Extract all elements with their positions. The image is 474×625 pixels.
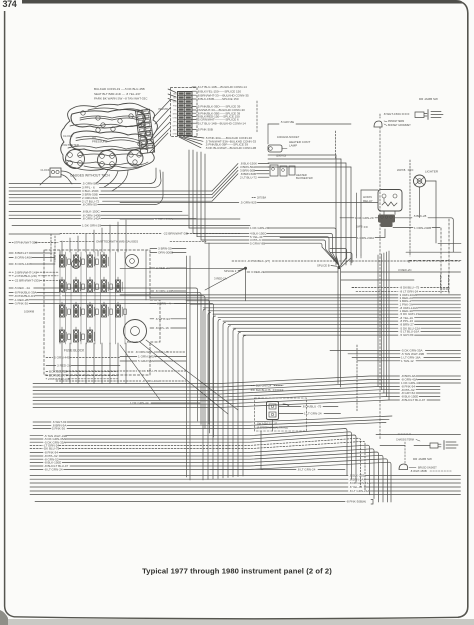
fuse r2c5 bbox=[115, 280, 120, 292]
wire DK BLU-75 lower bundle bbox=[30, 448, 43, 450]
svg-text:SPLICE 2: SPLICE 2 bbox=[224, 269, 237, 273]
svg-text:PRESSURE: PRESSURE bbox=[92, 139, 108, 143]
svg-text:OMITTED WITH W/B GAUGES: OMITTED WITH W/B GAUGES bbox=[96, 240, 138, 244]
C2 lower diagonal leads bbox=[186, 136, 204, 138]
instrument cluster GAUGES WITHOUT TACH outline bbox=[61, 103, 158, 171]
svg-text:BLK BLU-75: BLK BLU-75 bbox=[256, 388, 271, 392]
wire label fan C2 row 5 bbox=[192, 106, 196, 108]
svg-text:-8 LT GRN-24: -8 LT GRN-24 bbox=[44, 468, 63, 472]
svg-text:.8 ORN-140A: .8 ORN-140A bbox=[82, 217, 102, 221]
wire left label -3 PNK-30 bbox=[9, 303, 13, 305]
svg-text:LIGHTER: LIGHTER bbox=[425, 170, 439, 174]
svg-text:2 LT BLU-72: 2 LT BLU-72 bbox=[240, 175, 257, 179]
lighter right wire bbox=[426, 180, 437, 182]
svg-text:GRN: GRN bbox=[173, 134, 178, 136]
fuse r3c5 bbox=[115, 305, 120, 317]
wire ORN-300B bbox=[150, 252, 157, 254]
svg-text:BULKHD CONN-19 ----5 DK BLU-45: BULKHD CONN-19 ----5 DK BLU-45B bbox=[94, 87, 145, 91]
fuse block circle A bbox=[126, 255, 139, 268]
bus B wire 1 DK GRN-44 bbox=[33, 383, 400, 391]
wire left bundle row 2 3 PPL - 6 bbox=[9, 186, 81, 188]
svg-text:1 TAN-12: 1 TAN-12 bbox=[401, 359, 414, 363]
svg-text:1 ORN-240B: 1 ORN-240B bbox=[414, 226, 431, 230]
svg-text:.6 WHT-93: .6 WHT-93 bbox=[155, 317, 170, 321]
wire -5 DK GRN-35A lower bundle bbox=[30, 438, 43, 440]
bus B wire -8 ORN-40A bbox=[33, 380, 400, 388]
svg-text:.5 BLK-28: .5 BLK-28 bbox=[413, 214, 427, 218]
svg-text:.8 BRN-27: .8 BRN-27 bbox=[14, 251, 28, 255]
svg-text:-3 PNK-30: -3 PNK-30 bbox=[14, 302, 28, 306]
jamb plug glyph 1 bbox=[430, 443, 441, 448]
connector C1 cluster edge ladder bbox=[135, 109, 154, 153]
wire BOX BLU-75 dashed bbox=[56, 370, 137, 372]
connector C2 dashed housing bbox=[171, 88, 198, 137]
heater area verticals to bus bbox=[335, 155, 337, 265]
bus A feeder vertical 3 bbox=[213, 316, 216, 479]
grommet dome top bbox=[374, 121, 382, 127]
svg-text:DR JAMB SW: DR JAMB SW bbox=[419, 97, 438, 101]
fuse block top feed wires bbox=[61, 241, 63, 252]
svg-text:VOLTMETER: VOLTMETER bbox=[62, 143, 79, 147]
svg-text:TAN: TAN bbox=[173, 93, 177, 96]
wire 1 TAN-12 bbox=[357, 360, 400, 362]
splice B converging lines bbox=[336, 258, 339, 267]
wire -8 BLK-150E lower bundle bbox=[30, 462, 43, 464]
wire 8 PNK/BLK-(D) dashed bbox=[232, 260, 246, 262]
jamb plug glyph 2 bbox=[444, 441, 458, 450]
bus A wire 3 BRN-4 bbox=[186, 300, 398, 302]
svg-text:CLOCK: CLOCK bbox=[41, 168, 50, 172]
svg-text:.8 WHT-156B: .8 WHT-156B bbox=[410, 469, 427, 473]
wire bends top right bus join bbox=[330, 249, 347, 259]
svg-text:1 DK GRN-29: 1 DK GRN-29 bbox=[355, 216, 374, 220]
svg-text:1000498: 1000498 bbox=[24, 309, 35, 313]
svg-text:CLOCK: CLOCK bbox=[63, 134, 73, 138]
lighter symbol bbox=[414, 175, 426, 187]
bus A wire -8 LT GRN-24 bbox=[356, 290, 398, 292]
dashed harness box top bbox=[352, 287, 356, 289]
wire left bundle row 4 3 BRN-50B bbox=[9, 194, 81, 196]
svg-text:PPL: PPL bbox=[173, 122, 177, 124]
svg-text:BRN: BRN bbox=[173, 114, 178, 116]
svg-text:-5 GRY-8F: -5 GRY-8F bbox=[400, 333, 414, 337]
wire 5 ORN-44G dashed bbox=[46, 357, 53, 359]
svg-text:PRNDM TERM: PRNDM TERM bbox=[388, 120, 404, 123]
bus A feeder vertical 8 bbox=[238, 332, 241, 476]
page left border bbox=[5, 11, 14, 617]
bus B wire -8 GRY-52 bbox=[33, 393, 384, 401]
wire 3 RED-2C right bbox=[341, 271, 461, 273]
bus B wire -8 BLK-150E bbox=[33, 397, 386, 405]
svg-text:ORN-300B: ORN-300B bbox=[158, 251, 173, 255]
svg-text:SPLICE B: SPLICE B bbox=[317, 264, 330, 268]
svg-text:3 RED-2A: 3 RED-2A bbox=[57, 364, 72, 368]
svg-text:.8 ORN-WD-- DOME LT: .8 ORN-WD-- DOME LT bbox=[135, 350, 168, 354]
dashed vertical x257 fan box bbox=[256, 101, 258, 133]
fuse r1c3 bbox=[87, 255, 92, 267]
wire label fan C2 row 9 bbox=[192, 119, 196, 121]
wire .8 DK BLU-75 bbox=[279, 406, 301, 408]
bus A feeder vertical 6 bbox=[228, 326, 231, 478]
bus A feeder vertical 2 bbox=[208, 313, 211, 480]
wire .5 BLK-28 bbox=[395, 217, 412, 219]
bottom bus wire .8 YEL-16 bbox=[30, 486, 348, 488]
oil pressure gauge bbox=[98, 151, 117, 170]
wire 3 BRN-50 bbox=[150, 248, 157, 250]
fuse r3c1 bbox=[59, 305, 64, 317]
heater blower switch connectors bbox=[270, 165, 278, 176]
wire left label -1 RED-2B bbox=[9, 299, 13, 301]
splice B double drop bbox=[337, 269, 339, 384]
bus A dashed risers right bbox=[440, 275, 442, 288]
dashed vertical x410 bbox=[409, 160, 411, 256]
bus A wire 3 RED-2C bbox=[150, 297, 398, 299]
bottom bus wire .8 BLK-23B bbox=[30, 475, 348, 477]
svg-text:5 GRAY-8A: 5 GRAY-8A bbox=[138, 359, 155, 363]
svg-text:BW PLKR: BW PLKR bbox=[127, 341, 138, 344]
horn relay internals bbox=[382, 194, 386, 198]
wire .8 BRN-9A bbox=[33, 424, 51, 426]
svg-text:.8 DK/BLU -75: .8 DK/BLU -75 bbox=[302, 405, 322, 409]
wire 1 ORN-240A horn bbox=[280, 237, 356, 239]
wire 1 LT GRN-16A bbox=[352, 357, 400, 359]
wire drop 3 PPL-6 bbox=[200, 152, 202, 240]
left bundle bends up into cluster bbox=[150, 168, 156, 184]
clock feed connector bbox=[50, 168, 61, 177]
svg-text:.8 LT GRN-24A: .8 LT GRN-24A bbox=[349, 489, 369, 493]
bus B wire -8 PNK-94 bbox=[33, 387, 378, 395]
dashed wire y260 right bbox=[409, 259, 461, 261]
wire label fan C2 row 4 bbox=[192, 98, 196, 100]
fuse r2c1 bbox=[59, 280, 64, 292]
svg-text:.8 LT GRN-24: .8 LT GRN-24 bbox=[297, 468, 316, 472]
bottom extra unlabeled wires bbox=[30, 494, 461, 496]
svg-text:3 RED-2A: 3 RED-2A bbox=[214, 277, 227, 281]
svg-text:3 RED-2C: 3 RED-2C bbox=[398, 268, 413, 272]
svg-text:BLU: BLU bbox=[173, 130, 177, 132]
wire drop 5 YEL-43 bbox=[196, 152, 198, 237]
svg-text:.5 LT BLU-14B---BULKHD CONN-14: .5 LT BLU-14B---BULKHD CONN-14 bbox=[197, 121, 246, 125]
cluster screw circles bbox=[81, 111, 85, 115]
horn relay box bbox=[378, 190, 402, 212]
svg-text:1 DK GRN-29: 1 DK GRN-29 bbox=[82, 224, 101, 228]
svg-text:SEAT BLT BZR-21D --- .8 YEL-23: SEAT BLT BZR-21D --- .8 YEL-237 bbox=[94, 92, 141, 96]
sw asm connector body bbox=[267, 402, 279, 420]
wire left label -8 PNK/BLK-D3 bbox=[9, 295, 13, 297]
svg-text:-22 BRN/WHT-(3D): -22 BRN/WHT-(3D) bbox=[14, 278, 40, 282]
wire left bundle row 9 .8 ORN-140B bbox=[9, 214, 81, 216]
wire .6 WHT-93 bbox=[33, 421, 51, 423]
wire left label -22 BRN/WHT-(3D) bbox=[9, 279, 13, 281]
bus A wire -8 DK/BLU--75 bbox=[352, 287, 398, 289]
wire -8 GRN-52 lower bundle bbox=[30, 458, 43, 460]
wire left bundle row 8 .8 BLK-150C bbox=[9, 211, 81, 213]
wire label fan C2 row 11 bbox=[192, 128, 196, 130]
svg-text:-8 PNK/BLK-(2?): -8 PNK/BLK-(2?) bbox=[247, 259, 270, 263]
wire left bundle row 10 .8 ORN-140A bbox=[9, 218, 81, 220]
bottom bus wire .8 DK GRN-19A bbox=[30, 482, 348, 484]
fuse block inner connecting strokes bbox=[53, 252, 55, 372]
svg-text:1 ORN-240A: 1 ORN-240A bbox=[357, 236, 374, 240]
dashed drop to plug bbox=[404, 442, 406, 465]
bottom-left dark scan corner bbox=[0, 610, 8, 625]
bus A wire 1 PNK-3A bbox=[190, 303, 398, 305]
wire to grommet drop bbox=[341, 279, 414, 281]
svg-text:5 GRAY-8B: 5 GRAY-8B bbox=[250, 241, 265, 245]
svg-text:287GBA: 287GBA bbox=[257, 197, 266, 200]
wire 1 LT GRN-24 bbox=[279, 413, 303, 415]
connector C2 terminal cells bbox=[179, 92, 184, 94]
wire label fan C2 row 2 bbox=[192, 90, 196, 92]
diagonals fuse block to lower bus bbox=[140, 342, 228, 414]
right edge wires y240-244 bbox=[438, 242, 461, 244]
wire drop 5 GRAY-8B bbox=[204, 154, 206, 243]
svg-text:.8 ORN-140B: .8 ORN-140B bbox=[14, 262, 32, 266]
wire 3 RED-2A right of fuse bbox=[150, 267, 155, 269]
svg-text:.5 ORN-929: .5 ORN-929 bbox=[240, 201, 257, 205]
relay box to connector stubs bbox=[383, 211, 385, 215]
bus B wire -8 PPL-92 bbox=[33, 390, 381, 398]
svg-text:2#47FB: 2#47FB bbox=[397, 169, 406, 172]
svg-text:5 ORN-44G: 5 ORN-44G bbox=[54, 356, 71, 360]
svg-text:-8 ORN-40A: -8 ORN-40A bbox=[142, 379, 160, 383]
svg-text:BNKSET GROMMET: BNKSET GROMMET bbox=[388, 124, 411, 127]
wire left label .8 ORN-140A bbox=[9, 256, 13, 258]
wire 3 BRN-4 bbox=[150, 303, 156, 305]
grommet dashed drop x380 bbox=[379, 127, 381, 440]
splice 2 drop vertical bbox=[245, 269, 247, 301]
page right border bbox=[458, 2, 468, 618]
svg-text:.5 GRY-8E: .5 GRY-8E bbox=[280, 120, 294, 124]
leader wires from top labels to connector C2 bbox=[168, 89, 176, 93]
wire label fan C2 row 10 bbox=[192, 122, 196, 124]
wire into jamb plug bbox=[414, 445, 430, 447]
wire -5 TAN WHT-33B lower bundle bbox=[30, 435, 43, 437]
wire left bundle row 5 2 ORN-52A bbox=[9, 197, 81, 199]
svg-text:YEL: YEL bbox=[173, 110, 177, 112]
fuse r4c1 bbox=[59, 330, 64, 342]
bus A wire -5 LT BLU-16A bbox=[238, 331, 398, 333]
wire left bundle row 3 3 BLK-150K bbox=[9, 190, 81, 192]
fuse r2c4 bbox=[101, 280, 106, 292]
bus A feeder vertical 4 bbox=[218, 319, 221, 478]
wire left label 07PNK/WHT-35D bbox=[9, 242, 13, 244]
wire 1 DK GRN-29 horn bbox=[340, 217, 354, 219]
dashed vertical x357 bbox=[356, 345, 358, 412]
right stub line y435 bbox=[376, 434, 461, 436]
fuse r1c1 bbox=[59, 255, 64, 267]
sw asm dashed outline bbox=[255, 398, 307, 431]
wire 1 DK GRN-29 bbox=[12, 225, 81, 227]
wire label fan C2 row 8 bbox=[192, 115, 196, 117]
wire .5 GRY-8E bbox=[268, 123, 279, 125]
svg-text:PARK BK WARN SW --8 TAN WHT-33: PARK BK WARN SW --8 TAN WHT-33C bbox=[94, 97, 148, 101]
center long verticals x189-209 bbox=[186, 256, 188, 477]
bottom bus wire .8 LT GRN-24A bbox=[30, 490, 348, 492]
bus B wire -8 BLK/LT BLU-97 bbox=[33, 400, 389, 408]
wire 3 ORN-300A bbox=[120, 218, 154, 220]
bus B wire -8 BRN-9A bbox=[33, 376, 400, 384]
wire .8 WHT-156C to plug bbox=[379, 114, 381, 118]
bus A wire -8 ORN-140A bbox=[203, 307, 398, 309]
fuse r1c2 bbox=[73, 255, 78, 267]
fuse r3c4 bbox=[101, 305, 106, 317]
wire left label .8 ORN-140B bbox=[9, 263, 13, 265]
fuse r2c3 bbox=[87, 280, 92, 292]
wire 5 PNK-36 bbox=[33, 427, 51, 429]
wire -5 DK GRN-35A bbox=[330, 350, 400, 352]
wire 3 RED-2E bbox=[247, 271, 250, 273]
svg-text:SW ASM S/U LP: SW ASM S/U LP bbox=[257, 422, 277, 426]
svg-text:.5 PNK-30B: .5 PNK-30B bbox=[197, 128, 213, 132]
bus A wire -5 GRY-8F bbox=[243, 334, 398, 336]
svg-text:Typical 1977 through 1980 inst: Typical 1977 through 1980 instrument pan… bbox=[142, 567, 332, 576]
door jamb plug 1 bbox=[415, 112, 427, 118]
fuse r3c2 bbox=[73, 305, 78, 317]
wire BOX BLU-38 bbox=[46, 371, 48, 373]
wire 27PNK/BLK-DG dashed bbox=[45, 378, 48, 380]
wire 8 ORN-WD DOME LT dashed bbox=[128, 351, 134, 353]
wire -8 LT GRN-24 lower bundle bbox=[30, 468, 43, 470]
fuse block circle B bbox=[72, 260, 81, 269]
svg-text:-8 DK BLU-75: -8 DK BLU-75 bbox=[138, 369, 158, 373]
fuse block bottom stub wires bbox=[61, 343, 63, 384]
diagonal joins from L1 rows up to heater labels bbox=[212, 164, 238, 192]
svg-text:RELAY: RELAY bbox=[363, 199, 373, 203]
dashed vertical x335 heater bbox=[335, 131, 337, 158]
bus A wire 3 ORN-300A bbox=[120, 294, 398, 296]
svg-text:3 ORN-300A: 3 ORN-300A bbox=[155, 217, 174, 221]
svg-text:1 DK GRN-44: 1 DK GRN-44 bbox=[130, 401, 149, 405]
wire 6 WHT-93 bbox=[150, 318, 154, 320]
svg-text:-8 BLK/LT BLU-97: -8 BLK/LT BLU-97 bbox=[401, 398, 426, 402]
wire 3 RED-2A lower bbox=[46, 365, 56, 367]
wire -8 PPL-92 lower bundle bbox=[30, 455, 43, 457]
wire left bundle row 6 2 LT BLU-72 bbox=[9, 200, 81, 202]
bus A wire 1 RED-39 bbox=[208, 310, 398, 312]
wire -8 BLK/LT BLU-97 lower bundle bbox=[30, 465, 43, 467]
wire 8 PNK-30B(H) bbox=[35, 501, 345, 503]
heater feed vertical bbox=[267, 124, 269, 144]
clock connector leads bbox=[61, 171, 76, 180]
wire left label -5 RED - 2A bbox=[9, 287, 13, 289]
svg-text:BLOWER SW: BLOWER SW bbox=[296, 176, 313, 180]
bus A wire -5 DK GRN-19 bbox=[213, 313, 398, 315]
wire 1 ORN-240A lower bbox=[120, 356, 137, 358]
wire 22 BRN/WHT-DD dashed bbox=[60, 233, 162, 235]
wire left label .8 BRN-27 bbox=[9, 252, 13, 254]
bus A wire -8 YEL-16 bbox=[218, 317, 398, 319]
svg-text:27PNK/BLK-DG: 27PNK/BLK-DG bbox=[48, 377, 71, 381]
wire 5 GRAY-8A bbox=[120, 360, 137, 362]
svg-text:.8 ORN-55: .8 ORN-55 bbox=[82, 203, 97, 207]
wire LT GRN-24 lower bundle bbox=[30, 444, 43, 446]
svg-text:-22 BRN/WHT-DD: -22 BRN/WHT-DD bbox=[163, 232, 189, 236]
voltmeter gauge bbox=[66, 150, 85, 169]
svg-text:1 ORN-240A: 1 ORN-240A bbox=[138, 355, 157, 359]
bus B risers x378-389 bbox=[377, 255, 379, 387]
horn plate circle bbox=[124, 320, 147, 343]
bus A wire -8 BRN-27 bbox=[228, 324, 398, 326]
wire left label -2 PNK/BLK-(2D) bbox=[9, 275, 13, 277]
fuse block small terminal blobs bbox=[68, 259, 71, 265]
wire -8 PNK-94 lower bundle bbox=[30, 451, 43, 453]
svg-text:5 PNK-36: 5 PNK-36 bbox=[52, 427, 65, 431]
wire label fan C2 row 1 bbox=[192, 86, 196, 88]
svg-text:1 DK GRN-29: 1 DK GRN-29 bbox=[250, 226, 269, 230]
svg-text:.8 WHT-156C: .8 WHT-156C bbox=[383, 112, 402, 116]
wires from cluster to connector C2 bbox=[153, 100, 170, 118]
svg-text:374: 374 bbox=[3, 0, 17, 9]
wire 1 ORN-240B bbox=[393, 227, 413, 229]
wire BOX BCC-7 bbox=[46, 375, 48, 377]
wire left label .5 BRN/WHT-141 bbox=[9, 271, 13, 273]
wire -5 TAN WHT-33B bbox=[348, 353, 400, 355]
wire drop 4 BLK-150C bbox=[192, 150, 194, 234]
door jamb plug 2 bbox=[428, 110, 443, 120]
svg-text:.8 PPL-16: .8 PPL-16 bbox=[155, 326, 169, 330]
svg-text:.8 BLK-150B--------SPLICE 150: .8 BLK-150B--------SPLICE 150 bbox=[197, 97, 239, 101]
svg-text:3 RED-2E: 3 RED-2E bbox=[251, 270, 265, 274]
fuse r4c2 bbox=[73, 330, 78, 342]
horn feed verticals bbox=[356, 193, 358, 255]
wire left label -8 PNK/BLK-39A bbox=[9, 291, 13, 293]
bus A feeder vertical 7 bbox=[233, 329, 236, 477]
wire -5 DK GRN-35A lower bundle bbox=[30, 441, 43, 443]
svg-text:CHASSIS TERM: CHASSIS TERM bbox=[396, 439, 414, 442]
bus A feeder vertical 1 bbox=[203, 309, 206, 480]
sw asm pigtail bbox=[283, 404, 289, 406]
wire 8 PPL-16 bbox=[150, 327, 154, 329]
sw asm drop wire bbox=[260, 431, 262, 469]
svg-text:.8 ORN-140A: .8 ORN-140A bbox=[14, 256, 32, 260]
wire label fan C2 row 6 bbox=[192, 109, 196, 111]
right gauge bbox=[127, 150, 143, 166]
wire left row 12 bbox=[9, 233, 60, 235]
fuse r4c3 bbox=[87, 330, 92, 342]
bus A wire -5 DK BLU-15A bbox=[233, 327, 398, 329]
horn relay connector block bbox=[378, 215, 395, 223]
dashed mark bottom bbox=[398, 433, 411, 435]
svg-text:DR JAMB SW: DR JAMB SW bbox=[413, 457, 432, 461]
extra bends under cluster bbox=[96, 170, 108, 183]
wire drop 1 DK GRN-29 bbox=[188, 150, 190, 228]
left rows bend-down extensions x197-205 bbox=[62, 288, 198, 421]
cluster harness squiggle wires bbox=[71, 110, 145, 129]
wire .5 ORN-929 bbox=[120, 202, 239, 204]
bus A wire -8 PPL-16 bbox=[223, 320, 398, 322]
scanner background bottom band bbox=[0, 619, 474, 625]
wire label fan C2 row 7 bbox=[192, 112, 196, 114]
wire left bundle row 7 .8 ORN-55 bbox=[9, 204, 81, 206]
connector C2 body bbox=[178, 92, 193, 136]
heater cont lamp socket bbox=[268, 145, 282, 152]
wire 8 LT GRN-24 bottom bbox=[210, 468, 296, 470]
bus A feeder vertical 5 bbox=[223, 323, 226, 479]
svg-text:07PNK/WHT-35D: 07PNK/WHT-35D bbox=[14, 241, 38, 245]
lighter drop wire bbox=[419, 187, 421, 218]
page top black bar bbox=[22, 0, 462, 4]
wire RED-2B into splice bbox=[120, 267, 244, 269]
fuse block through verticals bbox=[59, 252, 61, 344]
wire label fan C2 row 3 bbox=[192, 94, 196, 96]
svg-text:LAMP: LAMP bbox=[289, 144, 297, 148]
svg-text:1000424A SOCKET: 1000424A SOCKET bbox=[277, 136, 300, 139]
wire left bundle row 1 .5 ORN-50G bbox=[9, 183, 81, 185]
wire right top verticals join bbox=[357, 255, 362, 258]
fuse r1c4 bbox=[101, 255, 106, 267]
wire 8 ORN-40A dashed bbox=[56, 380, 141, 382]
